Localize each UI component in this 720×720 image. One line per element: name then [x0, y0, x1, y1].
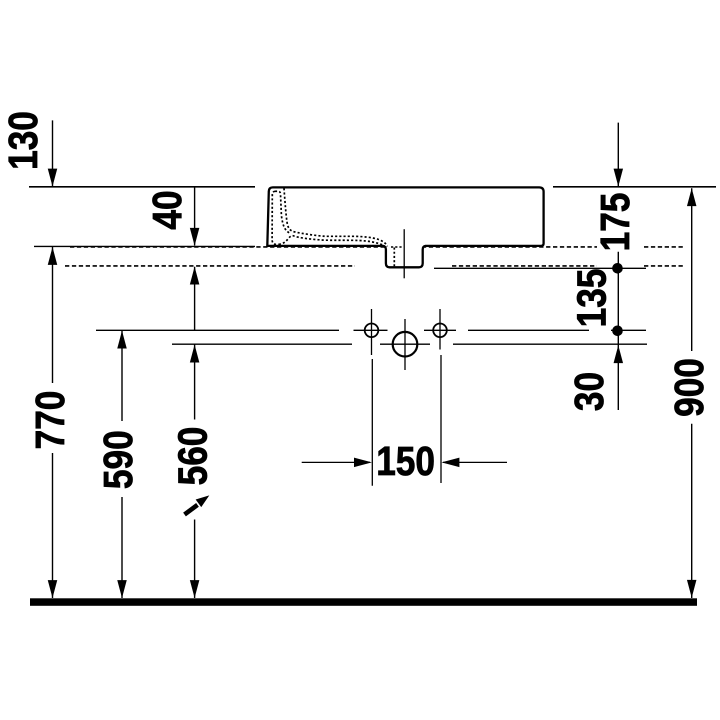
svg-text:135: 135	[569, 269, 615, 328]
svg-text:560: 560	[170, 427, 216, 486]
svg-text:40: 40	[144, 190, 190, 229]
svg-text:590: 590	[95, 430, 141, 489]
svg-text:130: 130	[0, 111, 46, 170]
svg-text:770: 770	[28, 391, 74, 450]
svg-text:30: 30	[566, 372, 612, 411]
svg-text:150: 150	[376, 438, 435, 484]
svg-text:900: 900	[666, 358, 712, 417]
svg-text:175: 175	[593, 193, 639, 252]
